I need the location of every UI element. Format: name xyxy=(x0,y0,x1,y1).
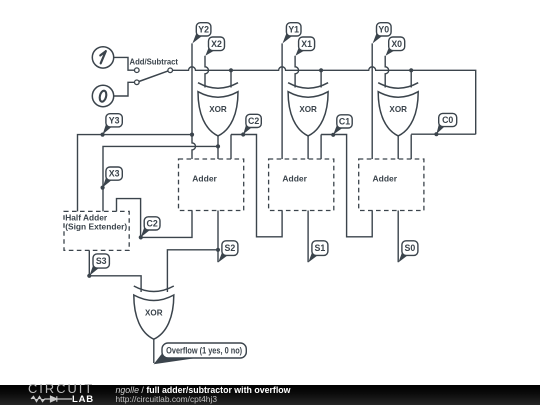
svg-text:S2: S2 xyxy=(225,243,236,253)
svg-text:S0: S0 xyxy=(405,243,416,253)
XOR gate stage 0 xyxy=(378,83,418,136)
svg-text:C0: C0 xyxy=(442,115,453,125)
svg-text:XOR: XOR xyxy=(299,105,317,114)
junction Y3 / Y2 line xyxy=(190,133,194,137)
node label C1 xyxy=(333,115,352,135)
svg-text:Add/Subtract: Add/Subtract xyxy=(130,56,179,66)
adder stage 1 xyxy=(269,159,334,211)
wire S1 stub xyxy=(307,211,309,263)
svg-text:X3: X3 xyxy=(109,169,120,179)
XOR gate stage 1 xyxy=(288,83,328,136)
node label Y3 xyxy=(103,114,123,135)
footer bar xyxy=(0,385,540,405)
wire X2 label to XOR input xyxy=(205,56,209,88)
node label X0 xyxy=(386,37,405,56)
half adder (sign extender) xyxy=(64,211,129,250)
svg-text:XOR: XOR xyxy=(209,105,227,114)
svg-text:Y0: Y0 xyxy=(378,24,389,34)
wire bus to XOR 0 B input xyxy=(410,70,412,87)
svg-text:Adder: Adder xyxy=(192,174,217,184)
svg-text:S3: S3 xyxy=(96,256,107,266)
wire from source 1 to switch throw xyxy=(114,57,135,70)
wire net X3 to XOR2 output xyxy=(103,146,218,211)
junction C1 label xyxy=(331,133,335,137)
XOR gate stage 2 xyxy=(198,83,238,136)
adder stage 2 xyxy=(179,159,244,211)
footer url text xyxy=(116,395,217,403)
junction bus / XOR 2 xyxy=(229,68,233,72)
voltage source 1 (logic high) xyxy=(92,47,113,68)
CircuitLab logo xyxy=(28,383,92,395)
wire carry-in C2 to adder xyxy=(230,135,232,160)
wire net C0 into adder 0 xyxy=(411,133,476,135)
node label X3 xyxy=(103,167,123,187)
node label Y2 xyxy=(192,23,211,44)
wire Y2 label to adder xyxy=(192,43,196,159)
junction Y3 label xyxy=(101,133,105,137)
svg-text:(Sign Extender): (Sign Extender) xyxy=(65,222,127,232)
node label S1 xyxy=(308,241,328,263)
wire XOR 0 output to adder xyxy=(397,136,399,159)
wire bus to XOR 2 B input xyxy=(230,70,232,87)
wire XOR 2 output to adder xyxy=(217,136,219,159)
wire Y1 label to adder xyxy=(281,43,283,159)
voltage source 0 (logic low) xyxy=(92,85,113,106)
node label S3 xyxy=(90,254,110,276)
wire Add/Subtract bus to C0 xyxy=(173,67,476,134)
node label Overflow xyxy=(154,343,247,364)
wire carry-in C0 to adder xyxy=(410,135,412,160)
node label X2 xyxy=(205,37,224,56)
wire bus to XOR 1 B input xyxy=(320,70,322,87)
svg-text:C1: C1 xyxy=(339,117,350,127)
svg-text:Adder: Adder xyxy=(373,174,398,184)
wire X1 label to XOR input xyxy=(295,56,299,88)
adder stage 0 xyxy=(359,159,424,211)
wire S0 stub xyxy=(397,211,399,263)
node label S2 xyxy=(218,241,238,263)
junction bus / XOR 1 xyxy=(319,68,323,72)
svg-text:Y2: Y2 xyxy=(198,24,209,34)
svg-text:C2: C2 xyxy=(248,116,259,126)
node label S0 xyxy=(398,241,418,263)
wire S2 to overflow XOR xyxy=(167,250,218,292)
switch SW1 Add/Subtract xyxy=(130,56,179,84)
wire S2 stub xyxy=(217,211,219,263)
wire overflow XOR output xyxy=(153,339,155,363)
junction X3 label xyxy=(101,186,105,190)
wire adder2 carry to half adder xyxy=(117,199,193,238)
wire X0 label to XOR input xyxy=(385,56,389,88)
junction C2 label xyxy=(241,132,245,136)
node label Y0 xyxy=(373,23,392,44)
wire S3 to overflow XOR xyxy=(89,276,141,292)
wire net C1 carry riser xyxy=(321,135,372,237)
node label Y1 xyxy=(283,23,302,44)
logo resistor and diode symbol xyxy=(30,394,74,404)
junction bus / XOR 0 xyxy=(409,68,413,72)
wire net C2 carry riser xyxy=(231,135,282,237)
svg-text:Adder: Adder xyxy=(282,174,307,184)
wire Y0 label to adder xyxy=(371,43,373,159)
junction X3 / XOR2 output xyxy=(216,144,220,148)
node label X1 xyxy=(296,37,315,56)
svg-text:XOR: XOR xyxy=(389,105,407,114)
junction S3 xyxy=(87,274,91,278)
wire carry-in C1 to adder xyxy=(320,135,322,160)
svg-text:S1: S1 xyxy=(315,243,326,253)
svg-text:Overflow (1 yes, 0 no): Overflow (1 yes, 0 no) xyxy=(166,346,242,356)
junction C2 half adder label xyxy=(139,235,143,239)
svg-text:X0: X0 xyxy=(391,39,402,49)
wire XOR 1 output to adder xyxy=(307,136,309,159)
svg-text:X1: X1 xyxy=(301,39,312,49)
junction C0 label xyxy=(434,132,438,136)
svg-text:Y1: Y1 xyxy=(288,24,299,34)
svg-text:Y3: Y3 xyxy=(109,115,120,125)
node label C2 xyxy=(243,114,261,134)
wire half adder sum stub xyxy=(88,250,90,275)
svg-text:XOR: XOR xyxy=(145,309,163,318)
svg-text:C2: C2 xyxy=(146,219,157,229)
junction S2 xyxy=(216,248,220,252)
wire from source 0 to switch throw xyxy=(114,82,135,96)
footer title text xyxy=(116,386,291,395)
svg-text:X2: X2 xyxy=(211,39,222,49)
XOR gate overflow xyxy=(134,286,174,339)
wire net Y3 to half adder and adder2 xyxy=(78,135,193,212)
node label C0 xyxy=(436,113,456,134)
node label C2 (half adder) xyxy=(141,217,160,237)
